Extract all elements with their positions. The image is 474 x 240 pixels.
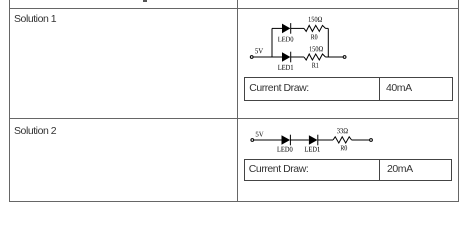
label R0 c2 [341,145,348,150]
nested table 1 cell divider [379,77,380,101]
label 5V c2 [256,132,264,137]
nested table 1 label [249,83,309,94]
LED0 triangle (circuit 2) [282,135,291,145]
circuit 1: left terminal [250,56,253,59]
label 150ohm R1 [310,46,323,51]
wire: R1 to right terminal [326,56,344,58]
LED1 triangle (circuit 2) [309,135,318,145]
wire: top branch to LED0 [272,27,282,29]
outer table row divider [9,118,459,119]
wire: terminal to split node [253,56,272,58]
wire: LED0 to LED1 [290,139,309,141]
label 150ohm R0 [309,17,322,22]
wire: LED0 to R0 [291,27,304,29]
wire: right vertical join [327,28,329,57]
wire: R0 to right vertical [326,27,329,29]
wire: bottom branch to LED1 [272,56,282,58]
label LED1 c2 [305,147,320,152]
wire: LED1 to R1 [291,56,304,58]
wire: R0 to right terminal [352,139,370,141]
outer table right border [458,0,459,202]
wire: split node vertical [271,28,273,57]
label 5V c1 [255,48,263,53]
outer table left border [9,0,10,202]
label LED0 c1 [278,37,293,42]
outer table column divider [237,0,238,202]
cell text Solution 1 [14,14,56,25]
outer table bottom border [9,201,459,202]
circuit 1: right terminal [343,56,346,59]
outer table top border [9,8,459,9]
nested table 2 (Current Draw / 20mA) [244,159,452,182]
circuit 2: right terminal [370,139,373,142]
nested table 1 value 40mA [386,83,412,94]
LED1 cathode bar [290,52,292,63]
label R0 c1 [311,34,318,39]
LED1 triangle [282,52,290,62]
label 33ohm c2 [337,128,348,133]
resistor R1 zigzag [304,54,326,60]
nested table 2 cell divider [379,159,380,182]
LED1 cathode bar (circuit 2) [317,135,319,146]
resistor R0 zigzag [304,25,326,31]
resistor R0 zigzag (circuit 2) [333,137,352,143]
label LED0 c2 [277,147,292,152]
wire: terminal to LED0 [254,139,282,141]
circuit 2: left terminal [251,139,254,142]
nested table 2 label [249,164,309,175]
LED0 cathode bar [290,23,292,34]
wire: LED1 to R0 [318,139,333,141]
cut-off text descender of row above [143,0,147,2]
nested table 1 (Current Draw / 40mA) [244,77,453,101]
LED0 cathode bar (circuit 2) [289,135,291,146]
nested table 2 value 20mA [387,164,413,175]
label LED1 c1 [278,65,293,70]
label R1 c1 [312,63,318,68]
cell text Solution 2 [14,126,56,137]
LED0 triangle [282,24,290,34]
